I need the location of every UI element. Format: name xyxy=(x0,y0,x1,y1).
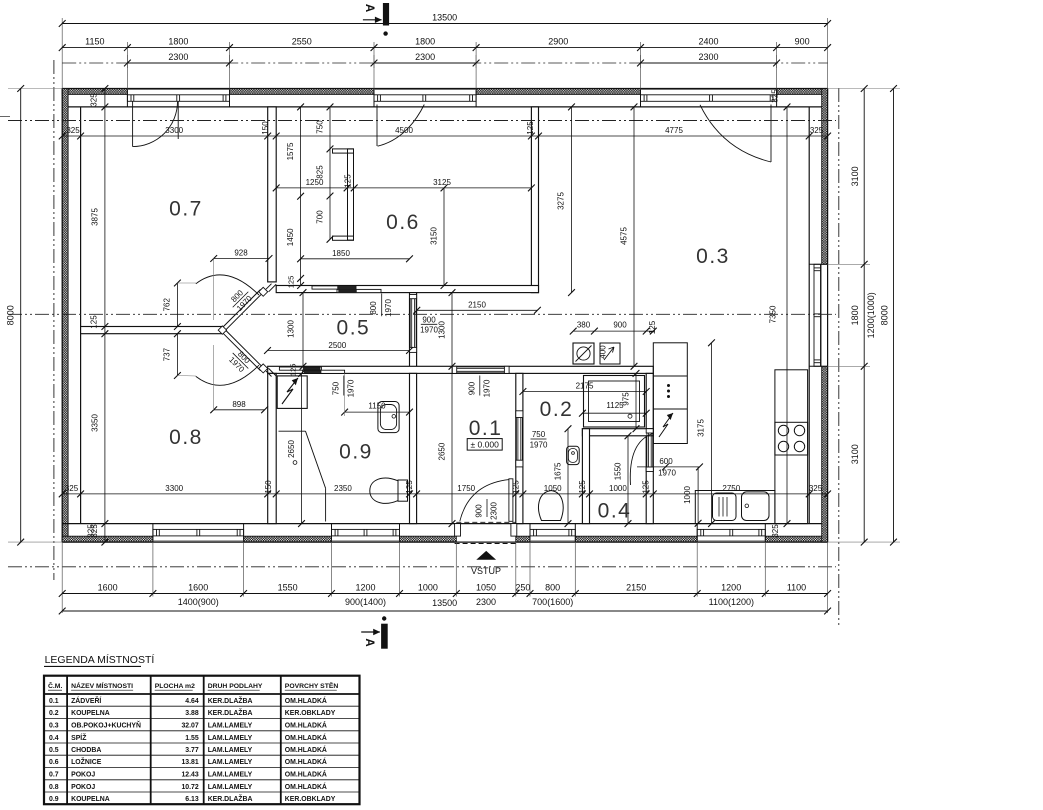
label 900/2300 entry door xyxy=(475,499,499,520)
svg-text:1050: 1050 xyxy=(544,484,562,493)
label 800/1970 door 0.7 xyxy=(226,285,255,314)
shower room 0.9 xyxy=(279,431,326,521)
legend table xyxy=(44,676,360,805)
svg-text:KER.DLAŽBA: KER.DLAŽBA xyxy=(208,708,253,717)
svg-text:2300: 2300 xyxy=(490,502,499,520)
svg-text:150: 150 xyxy=(264,480,273,494)
svg-text:1600: 1600 xyxy=(188,582,208,592)
svg-text:125: 125 xyxy=(526,121,535,135)
svg-text:0.9: 0.9 xyxy=(49,796,59,803)
svg-text:700: 700 xyxy=(316,210,325,224)
axis line vertical left xyxy=(53,60,55,580)
svg-text:325: 325 xyxy=(771,524,780,538)
dimension 1125 shower xyxy=(579,401,650,417)
svg-text:3275: 3275 xyxy=(557,192,566,210)
svg-text:2750: 2750 xyxy=(722,484,740,493)
svg-text:NÁZEV MÍSTNOSTI: NÁZEV MÍSTNOSTI xyxy=(71,681,133,690)
svg-text:900: 900 xyxy=(795,37,810,47)
door swing window W2 xyxy=(377,105,424,147)
window B2 bottom room 0.9 xyxy=(332,524,400,543)
dimension 13500 top xyxy=(59,13,831,27)
svg-text:325: 325 xyxy=(809,484,823,493)
svg-text:750: 750 xyxy=(316,120,325,134)
svg-text:4.64: 4.64 xyxy=(185,698,199,705)
svg-text:0.6: 0.6 xyxy=(386,211,420,234)
svg-text:1150: 1150 xyxy=(85,37,104,47)
wall bottom of 0.6 (kitchen north) xyxy=(276,286,538,293)
svg-text:0.3: 0.3 xyxy=(696,245,730,268)
svg-text:1200(1000): 1200(1000) xyxy=(866,292,876,338)
chimney flue xyxy=(573,343,594,364)
svg-text:OB.POKOJ+KUCHYŇ: OB.POKOJ+KUCHYŇ xyxy=(71,721,141,730)
svg-text:0.4: 0.4 xyxy=(598,499,632,522)
svg-text:POVRCHY STĚN: POVRCHY STĚN xyxy=(285,681,339,690)
svg-text:OM.HLADKÁ: OM.HLADKÁ xyxy=(285,733,327,742)
svg-text:8000: 8000 xyxy=(6,305,16,325)
svg-text:3300: 3300 xyxy=(165,126,183,135)
dimension 3150 room 0.6 xyxy=(430,185,448,289)
svg-text:1550: 1550 xyxy=(614,462,623,480)
svg-text:1850: 1850 xyxy=(332,249,350,258)
label 750/1970 slider 0.9 xyxy=(331,376,355,398)
svg-text:762: 762 xyxy=(163,297,172,311)
svg-text:4500: 4500 xyxy=(395,126,413,135)
wall between 0.7 and 0.8 xyxy=(81,327,222,334)
svg-text:KOUPELNA: KOUPELNA xyxy=(71,710,110,717)
svg-text:1970: 1970 xyxy=(530,441,548,450)
kitchen sink counter bottom xyxy=(695,491,775,524)
toilet room 0.9 xyxy=(370,478,408,503)
svg-text:1050: 1050 xyxy=(476,582,496,592)
svg-text:3875: 3875 xyxy=(91,208,100,226)
dimension 2150 kitchen top xyxy=(413,300,540,313)
cooktop 4 rings xyxy=(775,422,808,455)
door 750/1970 0.1 to 0.2 xyxy=(516,411,523,467)
svg-text:2500: 2500 xyxy=(328,341,346,350)
svg-text:PLOCHA m2: PLOCHA m2 xyxy=(155,683,195,690)
svg-text:7350: 7350 xyxy=(769,305,778,323)
wall 0.2 / kitchen xyxy=(646,373,653,523)
dimension 928 chevron top xyxy=(210,249,272,321)
dimension 898 chevron bottom xyxy=(210,345,268,413)
svg-text:2650: 2650 xyxy=(438,442,447,460)
label 800/1970 slider 0.6 xyxy=(369,294,393,317)
svg-text:1100: 1100 xyxy=(787,582,806,592)
dimensions wardrobe 0.6 (750 825 700 column) xyxy=(316,104,334,243)
svg-text:1970: 1970 xyxy=(482,379,491,397)
svg-text:4775: 4775 xyxy=(665,126,683,135)
dimension chain 1250 125 3125 in 0.6 xyxy=(273,174,535,192)
entrance door VSTUP 1050 xyxy=(455,479,517,544)
axis line vertical right xyxy=(838,88,840,625)
extension lines right xyxy=(828,89,900,543)
svg-text:325: 325 xyxy=(90,524,99,538)
dimension 7350 room 0.3 right xyxy=(769,104,791,528)
kitchen counter right wall xyxy=(775,370,808,524)
shower tray room 0.2 xyxy=(584,376,645,428)
svg-text:2300: 2300 xyxy=(698,52,718,62)
svg-text:0.1: 0.1 xyxy=(469,417,503,440)
svg-text:125: 125 xyxy=(511,480,520,494)
water heater room 0.9 xyxy=(277,376,307,409)
svg-text:12.43: 12.43 xyxy=(181,772,198,779)
svg-text:0.2: 0.2 xyxy=(49,710,59,717)
svg-text:125: 125 xyxy=(642,480,651,494)
extension lines bottom xyxy=(62,542,827,613)
door swing window W1 xyxy=(133,101,179,146)
svg-text:13.81: 13.81 xyxy=(181,759,198,766)
svg-text:1575: 1575 xyxy=(286,142,295,160)
svg-text:CHODBA: CHODBA xyxy=(71,747,101,754)
svg-text:600: 600 xyxy=(659,457,673,466)
svg-text:0.6: 0.6 xyxy=(49,759,59,766)
sliding door 750/1970 hall to 0.9 xyxy=(279,367,344,373)
door 800/1970 to room 0.8 (diagonal) xyxy=(196,330,276,385)
sliding door 800/1970 hall to 0.6 xyxy=(312,286,381,293)
washbasin room 0.2 xyxy=(567,446,580,464)
svg-text:LAM.LAMELY: LAM.LAMELY xyxy=(208,723,253,730)
svg-text:2350: 2350 xyxy=(334,484,352,493)
svg-text:737: 737 xyxy=(163,347,172,361)
svg-text:900: 900 xyxy=(467,381,476,395)
svg-text:1970: 1970 xyxy=(420,326,438,335)
dimension 2650 room 0.1 xyxy=(438,366,456,527)
door 900/1970 hall to kitchen (in vertical wall) xyxy=(410,295,417,353)
svg-text:8000: 8000 xyxy=(880,305,890,325)
window B4 bottom room 0.3 kitchen xyxy=(697,524,765,543)
svg-text:800: 800 xyxy=(369,301,378,315)
svg-text:2175: 2175 xyxy=(576,382,594,391)
svg-text:3.88: 3.88 xyxy=(185,710,199,717)
svg-text:LEGENDA MÍSTNOSTÍ: LEGENDA MÍSTNOSTÍ xyxy=(45,653,155,666)
label 600/1970 and dim chain 1000 at pantry door xyxy=(637,457,703,527)
window right wall room 0.3 xyxy=(809,264,827,366)
svg-text:125: 125 xyxy=(405,480,414,494)
svg-text:1800: 1800 xyxy=(850,305,860,325)
svg-text:SPÍŽ: SPÍŽ xyxy=(71,733,87,742)
svg-text:325: 325 xyxy=(65,484,79,493)
wardrobe stub room 0.6 xyxy=(333,149,354,240)
svg-text:3300: 3300 xyxy=(165,484,183,493)
wall 0.9 left xyxy=(268,373,277,523)
dimension 762 xyxy=(163,280,197,330)
door swing window W3 xyxy=(700,105,771,163)
section mark A top xyxy=(363,3,389,36)
svg-text:1200: 1200 xyxy=(721,582,741,592)
svg-text:750: 750 xyxy=(331,381,340,395)
svg-text:380: 380 xyxy=(577,321,591,330)
svg-text:32.07: 32.07 xyxy=(181,723,198,730)
svg-text:1000: 1000 xyxy=(418,582,438,592)
svg-text:400: 400 xyxy=(599,345,608,359)
svg-text:975: 975 xyxy=(622,392,631,406)
svg-text:KER.OBKLADY: KER.OBKLADY xyxy=(285,796,336,803)
toilet room 0.2 xyxy=(539,491,564,521)
dimension 400 chimney xyxy=(599,345,608,359)
dimension 13500 bottom xyxy=(59,598,831,614)
svg-text:13500: 13500 xyxy=(432,13,457,23)
label 750/1970 door 0.2 xyxy=(530,430,548,450)
dimension chain top (1150 1800 2550 1800 2900 2400 900) xyxy=(59,37,831,51)
dimension 975 shower xyxy=(622,370,640,432)
svg-text:1200: 1200 xyxy=(355,582,375,592)
dimension 1850 room 0.6 xyxy=(297,249,413,262)
VSTUP arrow xyxy=(476,551,496,560)
svg-text:0.9: 0.9 xyxy=(339,441,373,464)
window B1 bottom room 0.8 xyxy=(153,524,244,543)
sink double bowl xyxy=(713,492,770,521)
dimension 737 xyxy=(163,330,197,379)
dimension 1150 room 0.9 xyxy=(341,373,413,416)
dimension 3275 room 0.3 left xyxy=(557,104,575,297)
dimension row bottom labels with parentheses xyxy=(178,597,754,607)
svg-text:2900: 2900 xyxy=(548,37,568,47)
dimension 8000 left xyxy=(6,85,25,545)
dimension row 2300 lintels top xyxy=(62,52,827,66)
svg-text:1600: 1600 xyxy=(98,582,118,592)
kitchen counter left (by 0.2 wall) xyxy=(653,343,687,444)
wall exterior right xyxy=(809,89,827,543)
svg-text:1450: 1450 xyxy=(286,228,295,246)
svg-text:3100: 3100 xyxy=(850,444,860,464)
svg-text:LAM.LAMELY: LAM.LAMELY xyxy=(208,784,253,791)
svg-text:125: 125 xyxy=(90,315,99,329)
interior chain top (325 3300 150 4500 125 4775 325) xyxy=(59,121,831,140)
svg-text:2300: 2300 xyxy=(415,52,435,62)
svg-text:A: A xyxy=(363,638,375,646)
svg-text:125: 125 xyxy=(648,320,657,334)
wall exterior top xyxy=(62,89,827,107)
dimension 1300 hall left xyxy=(287,289,307,370)
dimensions wardrobe 0.6 (1575 1450 column) xyxy=(286,104,304,289)
svg-text:325: 325 xyxy=(810,126,824,135)
svg-text:3175: 3175 xyxy=(697,419,706,437)
svg-text:OM.HLADKÁ: OM.HLADKÁ xyxy=(285,696,327,705)
svg-text:± 0.000: ± 0.000 xyxy=(471,440,500,450)
svg-text:1000: 1000 xyxy=(683,486,692,504)
svg-text:0.7: 0.7 xyxy=(169,198,203,221)
dimension 4575 room 0.3 xyxy=(620,104,638,370)
door 600/1970 kitchen to pantry 0.4 xyxy=(630,429,653,485)
svg-text:3150: 3150 xyxy=(430,227,439,245)
washbasin room 0.9 xyxy=(378,402,399,433)
svg-text:KER.DLAŽBA: KER.DLAŽBA xyxy=(208,696,253,705)
svg-text:2400: 2400 xyxy=(698,37,718,47)
svg-text:0.7: 0.7 xyxy=(49,772,59,779)
door 800/1970 to room 0.7 (diagonal) xyxy=(196,275,276,330)
svg-text:125: 125 xyxy=(289,364,298,377)
svg-text:KOUPELNA: KOUPELNA xyxy=(71,796,110,803)
svg-text:1970: 1970 xyxy=(658,469,676,478)
svg-text:700(1600): 700(1600) xyxy=(532,597,573,607)
dimension 1300 kitchen side xyxy=(438,289,456,370)
dimension 8000 right xyxy=(880,85,897,545)
svg-text:3125: 3125 xyxy=(433,178,451,187)
svg-text:0.1: 0.1 xyxy=(49,698,59,705)
axis line horizontal bottom xyxy=(8,566,836,568)
svg-text:1300: 1300 xyxy=(438,321,447,339)
wall exterior bottom xyxy=(62,524,827,543)
dimension chain bottom xyxy=(59,582,831,597)
svg-text:LAM.LAMELY: LAM.LAMELY xyxy=(208,735,253,742)
dimension 1550 room 0.4 xyxy=(614,432,632,527)
svg-text:1675: 1675 xyxy=(554,462,563,480)
wall hall bottom / 0.1 0.2 top xyxy=(268,366,654,373)
svg-text:2650: 2650 xyxy=(287,440,296,458)
svg-text:900: 900 xyxy=(613,321,627,330)
svg-text:13500: 13500 xyxy=(432,598,457,608)
wall exterior left xyxy=(62,89,80,543)
legend title xyxy=(44,653,154,666)
svg-text:3350: 3350 xyxy=(91,414,100,432)
svg-text:KER.OBKLADY: KER.OBKLADY xyxy=(285,710,336,717)
svg-text:1250: 1250 xyxy=(306,178,324,187)
svg-text:900: 900 xyxy=(422,316,436,325)
label 900/1970 door kitchen xyxy=(420,316,438,335)
svg-text:3100: 3100 xyxy=(850,166,860,186)
interior chain bottom (325 3300 150 2350 125 1750 125 1050 125 1000 125 2750 325) xyxy=(59,480,831,498)
label 900/1970 door 0.1-0.5 rotated xyxy=(467,376,491,398)
svg-text:0.4: 0.4 xyxy=(49,735,59,742)
window B3 bottom room 0.2 xyxy=(530,524,575,543)
extension lines left xyxy=(8,89,62,543)
svg-text:150: 150 xyxy=(261,121,270,135)
svg-text:OM.HLADKÁ: OM.HLADKÁ xyxy=(285,745,327,754)
axis line horizontal top xyxy=(8,120,836,122)
svg-text:LOŽNICE: LOŽNICE xyxy=(71,757,102,766)
svg-text:2150: 2150 xyxy=(468,300,486,309)
svg-text:325: 325 xyxy=(66,126,80,135)
wall 0.9 / 0.1 xyxy=(410,373,417,523)
svg-text:0.2: 0.2 xyxy=(540,398,574,421)
svg-text:1970: 1970 xyxy=(346,379,355,397)
apex cap of chevron xyxy=(218,326,226,334)
dimension 2175 room 0.2 xyxy=(520,382,650,395)
svg-text:LAM.LAMELY: LAM.LAMELY xyxy=(208,759,253,766)
svg-text:1800: 1800 xyxy=(168,37,188,47)
svg-text:2150: 2150 xyxy=(626,582,646,592)
svg-text:2550: 2550 xyxy=(292,37,312,47)
svg-text:LAM.LAMELY: LAM.LAMELY xyxy=(208,772,253,779)
svg-text:1.55: 1.55 xyxy=(185,735,199,742)
wall hall 0.5 / kitchen with stub xyxy=(410,293,417,374)
dimension 2500 hall xyxy=(264,341,413,354)
svg-text:3.77: 3.77 xyxy=(185,747,199,754)
svg-text:125: 125 xyxy=(344,174,353,188)
svg-text:1550: 1550 xyxy=(278,582,298,592)
appliance with arrow (kitchen) xyxy=(600,343,620,364)
wall 0.2 / 0.4 vertical xyxy=(582,429,589,524)
svg-text:0.5: 0.5 xyxy=(337,316,371,339)
svg-text:928: 928 xyxy=(234,249,248,258)
wall between 0.7 and 0.6 xyxy=(268,107,277,282)
svg-text:900(1400): 900(1400) xyxy=(345,597,386,607)
dimension 325 corner bottom left xyxy=(90,524,99,538)
svg-text:0.8: 0.8 xyxy=(169,426,203,449)
window W3 top room 0.3 xyxy=(641,89,777,107)
wall between 0.6 and 0.3 xyxy=(531,107,538,293)
svg-text:1150: 1150 xyxy=(368,402,386,411)
svg-text:825: 825 xyxy=(316,165,325,179)
svg-text:2300: 2300 xyxy=(168,52,188,62)
svg-text:OM.HLADKÁ: OM.HLADKÁ xyxy=(285,721,327,730)
svg-text:325: 325 xyxy=(90,93,99,107)
svg-text:ZÁDVEŘÍ: ZÁDVEŘÍ xyxy=(71,696,102,705)
svg-text:10.72: 10.72 xyxy=(181,784,198,791)
svg-text:325: 325 xyxy=(771,89,780,103)
axis line horizontal middle xyxy=(8,313,836,315)
svg-text:1000: 1000 xyxy=(609,484,627,493)
svg-text:898: 898 xyxy=(232,400,246,409)
dimension 325 corner bottom right xyxy=(771,524,780,538)
dimension 3175 kitchen xyxy=(697,339,715,527)
svg-text:Č.M.: Č.M. xyxy=(48,681,62,690)
svg-text:0.5: 0.5 xyxy=(49,747,59,754)
label 800/1970 door 0.8 xyxy=(226,346,255,375)
svg-text:1300: 1300 xyxy=(287,320,296,338)
window W1 top room 0.7 xyxy=(127,89,229,107)
svg-text:A: A xyxy=(363,4,375,12)
svg-text:0.8: 0.8 xyxy=(49,784,59,791)
interior chain left vertical (325 3875 125 3350 325) xyxy=(87,85,109,545)
svg-text:125: 125 xyxy=(287,276,296,289)
door 900/1970 entry 0.1 to hall 0.5 (in horizontal wall) xyxy=(452,366,509,373)
svg-text:OM.HLADKÁ: OM.HLADKÁ xyxy=(285,770,327,779)
wall 0.2 / 0.4 horizontal xyxy=(582,429,653,436)
dimension 1675 room 0.2 xyxy=(554,425,572,527)
svg-text:750: 750 xyxy=(532,430,546,439)
svg-text:DRUH PODLAHY: DRUH PODLAHY xyxy=(208,683,263,690)
svg-text:LAM.LAMELY: LAM.LAMELY xyxy=(208,747,253,754)
extension lines top xyxy=(62,18,827,89)
svg-text:POKOJ: POKOJ xyxy=(71,772,95,779)
svg-text:0.3: 0.3 xyxy=(49,723,59,730)
level mark left edge xyxy=(0,116,10,118)
svg-text:6.13: 6.13 xyxy=(185,796,199,803)
svg-text:1800: 1800 xyxy=(415,37,435,47)
wall 0.1 / 0.2 xyxy=(516,373,523,523)
dimension 2650 room 0.9 xyxy=(287,370,305,527)
elevation mark 0.000 xyxy=(467,439,502,451)
window W2 top room 0.6 xyxy=(374,89,476,107)
svg-text:1750: 1750 xyxy=(457,484,475,493)
section mark A bottom xyxy=(361,616,388,648)
svg-text:OM.HLADKÁ: OM.HLADKÁ xyxy=(285,782,327,791)
svg-text:125: 125 xyxy=(578,480,587,494)
svg-text:VSTUP: VSTUP xyxy=(471,566,501,576)
svg-text:OM.HLADKÁ: OM.HLADKÁ xyxy=(285,757,327,766)
svg-text:800: 800 xyxy=(545,582,560,592)
svg-text:KER.DLAŽBA: KER.DLAŽBA xyxy=(208,794,253,803)
svg-text:2300: 2300 xyxy=(476,597,496,607)
svg-text:1100(1200): 1100(1200) xyxy=(709,597,754,607)
svg-text:1400(900): 1400(900) xyxy=(178,597,219,607)
dimension chain right (3100 1800 3100) xyxy=(850,85,867,545)
svg-text:250: 250 xyxy=(515,582,530,592)
svg-text:4575: 4575 xyxy=(620,227,629,245)
svg-text:POKOJ: POKOJ xyxy=(71,784,95,791)
dimension chain 380 900 125 kitchen top xyxy=(570,320,657,334)
svg-text:900: 900 xyxy=(475,504,484,518)
